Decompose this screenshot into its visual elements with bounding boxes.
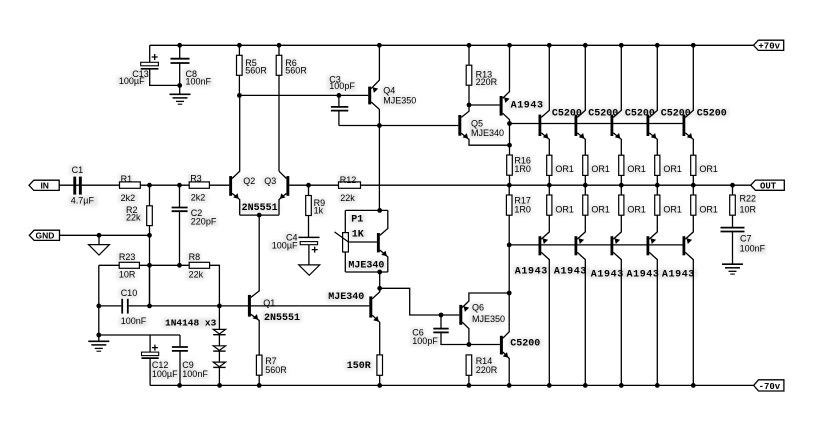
svg-text:MJE340: MJE340 — [328, 292, 364, 303]
wire R8 right down to diode chain top — [210, 265, 220, 306]
diodes D1-D3 1N4148 — [213, 306, 225, 386]
capacitor C9 100nF — [172, 335, 188, 385]
node P1 bottom — [377, 270, 382, 275]
svg-text:R3: R3 — [190, 173, 202, 183]
svg-text:MJE350: MJE350 — [383, 96, 416, 106]
output transistor A1943 #3 (PNP lower) — [611, 215, 622, 385]
transistor Q2 2N5551 — [229, 95, 240, 215]
wire R6 to Q3 collector — [278, 75, 280, 171]
svg-text:R12: R12 — [340, 175, 357, 185]
resistor OR1 (upper #2) — [583, 155, 588, 175]
resistor OR1 (lower #4) — [655, 195, 660, 215]
output transistor A1943 #2 (PNP lower) — [575, 215, 586, 385]
resistor R5 560R — [238, 45, 240, 55]
potentiometer P1 1K with Vbe multiplier MJE340 — [335, 210, 388, 272]
node Q3 base / R9 / R12 junction — [306, 183, 311, 188]
svg-text:560R: 560R — [245, 66, 267, 76]
power flag -70v — [754, 380, 784, 392]
resistor OR1 (upper #5) — [691, 155, 696, 175]
node Q6 emitter / driver collector — [507, 291, 512, 296]
input flag IN — [29, 180, 59, 191]
wire predriver collector / bias node column — [509, 124, 511, 156]
resistor R22 10R — [732, 185, 734, 195]
ground triangle below GND line — [98, 235, 100, 244]
svg-text:IN: IN — [40, 181, 49, 191]
capacitor C3 100pF — [331, 95, 348, 125]
resistor R7 560R — [256, 355, 262, 375]
svg-text:2N5551: 2N5551 — [242, 203, 278, 214]
svg-text:A1943: A1943 — [554, 266, 587, 277]
svg-text:Q2: Q2 — [243, 176, 255, 186]
svg-text:C5200: C5200 — [625, 108, 655, 119]
node C3 top / Q4 base line — [337, 93, 342, 98]
wire to C12 and C9 tops — [99, 334, 180, 336]
svg-text:100pF: 100pF — [329, 81, 355, 91]
capacitor C7 100nF — [721, 228, 745, 265]
resistor OR1 (lower #3) — [619, 195, 624, 215]
node R23/C10 left junction — [96, 304, 101, 309]
transistor Vbe multiplier MJE340 (in P1 loop) — [377, 210, 388, 272]
ground (open triangle) at GND flag — [89, 245, 110, 255]
svg-text:1R0: 1R0 — [514, 164, 531, 174]
svg-text:10R: 10R — [740, 204, 757, 214]
transistor driver C5200 (lower) — [469, 293, 509, 385]
svg-text:560R: 560R — [285, 66, 307, 76]
resistor OR1 (upper #4) — [655, 155, 660, 175]
transistor Q1 2N5551 — [248, 215, 259, 355]
resistor OR1 (upper #1) — [547, 155, 552, 175]
svg-text:A1943: A1943 — [627, 269, 660, 280]
wire VAS collector to Q6 base — [380, 288, 460, 315]
svg-text:C5200: C5200 — [510, 338, 540, 349]
svg-text:C1: C1 — [72, 165, 84, 175]
svg-text:4.7µF: 4.7µF — [71, 196, 95, 206]
transistor Q5 MJE340 — [458, 105, 509, 145]
svg-text:220pF: 220pF — [191, 216, 217, 226]
svg-text:-70v: -70v — [759, 382, 781, 392]
ground below left rail node — [88, 341, 109, 351]
svg-text:OR1: OR1 — [591, 164, 610, 174]
svg-text:22k: 22k — [189, 270, 204, 280]
svg-text:Q6: Q6 — [472, 302, 484, 312]
transistor Q4 MJE350 — [368, 45, 379, 125]
node diode chain top / R8 — [217, 304, 222, 309]
svg-text:MJE350: MJE350 — [472, 314, 505, 324]
wire Q4 collector node to Q5 base — [339, 125, 458, 127]
output transistor C5200 #2 (NPN upper) — [575, 45, 586, 155]
capacitor C13 100µF electrolytic — [141, 45, 180, 85]
wire VAS collector column down to Vbe multiplier — [378, 126, 380, 211]
svg-text:MJE340: MJE340 — [348, 261, 384, 272]
output transistor C5200 #3 (NPN upper) — [611, 45, 622, 155]
svg-text:A1943: A1943 — [591, 269, 624, 280]
transistor Q6 MJE350 — [459, 293, 509, 345]
output flag OUT — [751, 180, 785, 192]
wire upper output bases line — [510, 123, 684, 125]
svg-text:2k2: 2k2 — [191, 193, 206, 203]
node C2 bottom / R8 junction — [177, 263, 182, 268]
wire +70v rail — [150, 44, 754, 46]
node Q4 collector / VAS top — [377, 123, 382, 128]
svg-text:100nF: 100nF — [740, 244, 766, 254]
svg-text:OR1: OR1 — [699, 164, 718, 174]
node VAS collector / drive to Q6 — [377, 286, 382, 291]
svg-text:C5200: C5200 — [661, 108, 691, 119]
output transistor C5200 #1 (NPN upper) — [539, 45, 550, 155]
node R13 bottom / A1943 base — [467, 103, 472, 108]
svg-text:A1943: A1943 — [511, 100, 544, 111]
output transistor C5200 #4 (NPN upper) — [647, 45, 658, 155]
svg-text:Q5: Q5 — [471, 118, 483, 128]
resistor R17 1R0 — [508, 185, 510, 195]
svg-text:Q4: Q4 — [383, 85, 395, 95]
capacitor C12 100µF electrolytic — [142, 335, 159, 385]
svg-text:22k: 22k — [126, 212, 141, 222]
node GND / R2 junction — [147, 233, 152, 238]
svg-text:Q1: Q1 — [263, 298, 275, 308]
svg-text:2k2: 2k2 — [121, 193, 136, 203]
wire R17 bottom through lower base line to driver node — [508, 215, 510, 293]
resistor OR1 (lower #2) — [583, 195, 588, 215]
capacitor C8 100nF — [171, 45, 190, 94]
resistor R8 22k — [189, 262, 209, 268]
ground below C8 — [170, 94, 191, 104]
svg-text:R23: R23 — [119, 252, 136, 262]
wire output rail: Q3 base / feedback to OUT — [289, 184, 751, 186]
svg-text:C10: C10 — [121, 288, 138, 298]
svg-text:150R: 150R — [347, 361, 371, 372]
svg-text:100nF: 100nF — [182, 369, 208, 379]
resistor R13 220R — [468, 45, 470, 65]
svg-text:560R: 560R — [265, 365, 287, 375]
wire C10 left lead — [99, 305, 122, 307]
wire GND line — [60, 234, 150, 236]
svg-text:OR1: OR1 — [591, 204, 610, 214]
svg-text:1K: 1K — [352, 230, 364, 241]
output transistor A1943 #4 (PNP lower) — [647, 215, 658, 385]
capacitor C10 100nF — [121, 299, 128, 314]
svg-text:R22: R22 — [740, 193, 757, 203]
wire input node: IN coupling to Q2 base — [59, 184, 229, 186]
wire P1 bottom to VAS collector — [379, 272, 381, 288]
svg-text:OUT: OUT — [760, 182, 777, 192]
svg-text:OR1: OR1 — [555, 204, 574, 214]
capacitor C1 4.7µF — [73, 177, 82, 195]
ground flag GND — [29, 230, 59, 241]
svg-text:P1: P1 — [351, 214, 363, 225]
svg-text:C5200: C5200 — [697, 108, 727, 119]
svg-text:100pF: 100pF — [412, 336, 438, 346]
svg-text:220R: 220R — [476, 365, 498, 375]
node GND / ground symbol tap — [97, 233, 102, 238]
svg-text:OR1: OR1 — [663, 164, 682, 174]
ground (open triangle) below C4 — [299, 265, 320, 275]
node R2/R23/R8 junction — [147, 263, 152, 268]
capacitor C4 100µF electrolytic — [299, 237, 320, 265]
ground below C7 — [722, 264, 743, 274]
wire junction down to C10 line — [149, 265, 151, 306]
svg-text:OR1: OR1 — [699, 204, 718, 214]
node Q5 emitter junction — [507, 143, 512, 148]
svg-text:MJE340: MJE340 — [471, 128, 504, 138]
capacitor C6 100pF — [433, 315, 469, 345]
wire R2 bottom through GND line to C10 row — [149, 226, 151, 306]
wire left vertical down to ground/C12 row — [98, 306, 100, 341]
svg-text:1R0: 1R0 — [514, 204, 531, 214]
wire R23 right to R8 left — [139, 264, 189, 266]
node tail current junction — [257, 213, 262, 218]
resistor OR1 (upper #3) — [619, 155, 624, 175]
node lower bias line — [507, 243, 512, 248]
wire C10 right to Q1 base and MJE340 VAS base — [129, 305, 370, 307]
svg-text:100nF: 100nF — [121, 316, 147, 326]
node ground stem / C12-C9 wire — [96, 333, 101, 338]
node C13/C8 ground junction — [177, 83, 182, 88]
transistor VAS MJE340 — [369, 288, 379, 355]
resistor R3 2k2 — [189, 182, 209, 188]
svg-text:OR1: OR1 — [663, 204, 682, 214]
resistor OR1 (lower #1) — [547, 195, 552, 215]
output transistor C5200 #5 (NPN upper) — [683, 45, 694, 155]
transistor A1943 predriver (upper) — [469, 45, 510, 123]
resistor R2 22k — [149, 185, 151, 206]
node P1 top / VAS column — [377, 208, 382, 213]
output transistor A1943 #5 (PNP lower) — [683, 215, 694, 385]
resistor R23 10R — [99, 264, 119, 266]
resistor R9 1k — [308, 185, 310, 195]
svg-text:100µF: 100µF — [272, 241, 298, 251]
svg-text:+70v: +70v — [758, 42, 780, 52]
node upper bias line — [507, 121, 512, 126]
svg-text:10R: 10R — [119, 270, 136, 280]
svg-text:R8: R8 — [189, 252, 201, 262]
svg-text:C5200: C5200 — [552, 108, 582, 119]
svg-text:100µF: 100µF — [152, 369, 178, 379]
svg-text:1k: 1k — [314, 205, 324, 215]
svg-text:220R: 220R — [476, 77, 498, 87]
wire lower output bases line — [509, 244, 684, 246]
resistor R1 2k2 — [120, 182, 141, 188]
svg-text:22k: 22k — [340, 193, 355, 203]
capacitor C2 220pF — [172, 185, 188, 265]
svg-text:R1: R1 — [121, 174, 133, 184]
svg-text:1N4148 x3: 1N4148 x3 — [165, 318, 217, 329]
node R2 column joins Q1 base line — [147, 304, 152, 309]
resistor OR1 (lower #5) — [691, 195, 696, 215]
svg-text:GND: GND — [36, 231, 55, 241]
svg-text:OR1: OR1 — [627, 164, 646, 174]
resistor R16 1R0 — [507, 155, 513, 175]
svg-text:A1943: A1943 — [515, 266, 548, 277]
resistor 150R (VAS emitter) — [377, 355, 383, 375]
transistor Q3 2N5551 — [279, 171, 289, 215]
svg-text:OR1: OR1 — [627, 204, 646, 214]
node Q6 collector / driver base / R14 — [467, 342, 472, 347]
resistor R12 22k — [339, 182, 361, 188]
svg-text:C7: C7 — [740, 234, 752, 244]
svg-text:Q3: Q3 — [264, 176, 276, 186]
wire Q2/Q3 common emitters — [240, 214, 279, 216]
node R5 / Q2 collector / Q4 base — [237, 93, 242, 98]
svg-text:100µF: 100µF — [119, 76, 145, 86]
svg-text:OR1: OR1 — [555, 164, 574, 174]
node C6 top / Q6 base line — [439, 313, 444, 318]
svg-text:100nF: 100nF — [186, 77, 212, 87]
wire Q2 collector node to Q4 base — [239, 94, 368, 96]
svg-text:C5200: C5200 — [588, 108, 618, 119]
wire -70v rail — [150, 384, 754, 386]
output transistor A1943 #1 (PNP lower) — [539, 215, 550, 385]
power flag +70v — [754, 40, 784, 52]
resistor R14 220R — [466, 355, 472, 375]
resistor R6 560R — [278, 45, 280, 55]
svg-text:2N5551: 2N5551 — [264, 313, 300, 324]
svg-text:A1943: A1943 — [662, 269, 695, 280]
